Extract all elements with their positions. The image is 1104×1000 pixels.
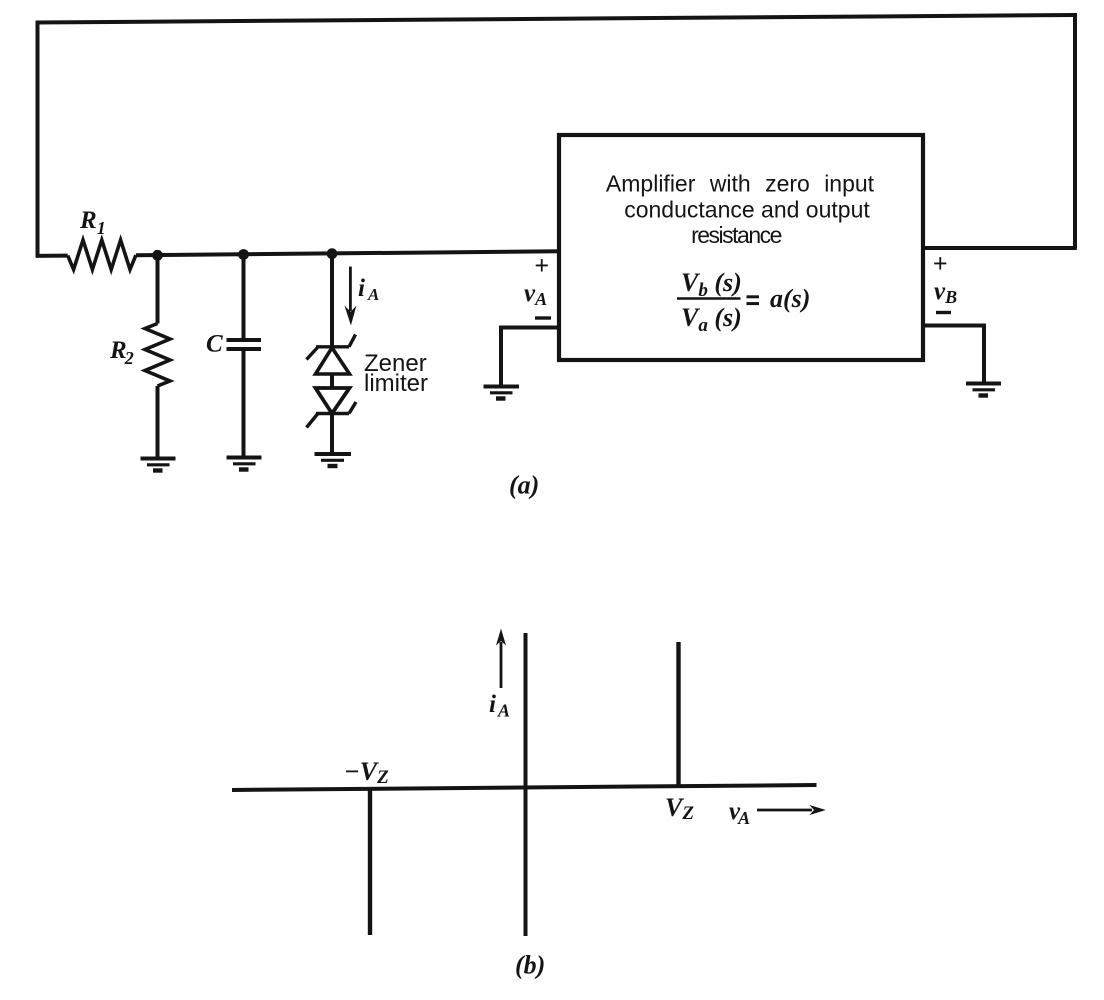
graph (b): vertical axis line — [524, 633, 528, 936]
wire: vA minus terminal to ground — [501, 328, 560, 386]
wire: R1 to amplifier input (node A) — [136, 251, 560, 255]
zener diode D1 (upper): cathode bar with bent ends — [307, 335, 356, 360]
amplifier U1 box — [559, 135, 923, 360]
ground (below zener limiter) — [315, 454, 352, 466]
graph (b): current spike at -VZ — [368, 789, 372, 935]
wire: left vertical of feedback loop — [36, 21, 40, 257]
ground (below C) — [227, 458, 262, 470]
graph (b): iA axis arrow — [500, 642, 503, 688]
wire: right vertical of feedback loop — [1073, 13, 1077, 248]
wire: amplifier output to feedback node B — [921, 246, 1077, 250]
svg-text:(b): (b) — [515, 951, 545, 980]
wire: top horizontal feedback — [36, 15, 1075, 23]
resistor R2 — [145, 324, 170, 387]
svg-text:+: + — [933, 249, 948, 278]
label: minus sign of vB — [936, 311, 951, 314]
svg-text:a(s): a(s) — [770, 284, 810, 313]
resistor R1 — [68, 240, 136, 270]
svg-text:Va (s): Va (s) — [681, 303, 742, 336]
node: junction dot at C — [238, 249, 249, 260]
svg-text:vB: vB — [934, 278, 957, 307]
svg-text:R1: R1 — [79, 207, 106, 238]
zener diode D1 triangle (anode pointing up) — [316, 348, 350, 374]
current arrow iA — [349, 267, 352, 311]
svg-text:iA: iA — [489, 691, 510, 721]
wire: zener to ground — [330, 414, 334, 454]
ground (below vA) — [484, 387, 520, 399]
ground (below R2) — [141, 459, 176, 471]
wire: node A down to capacitor C — [242, 255, 246, 341]
capacitor C top plate — [227, 338, 262, 342]
graph (b): vA axis arrow — [757, 809, 812, 812]
svg-text:conductance and output: conductance and output — [624, 197, 870, 223]
fraction bar — [677, 297, 741, 300]
capacitor C bottom plate — [227, 347, 262, 351]
svg-text:Amplifier with zero input: Amplifier with zero input — [606, 171, 875, 197]
svg-text:limiter: limiter — [364, 370, 428, 397]
wire: left stub into R1 — [36, 254, 68, 258]
svg-text:C: C — [206, 331, 223, 358]
label: minus sign of vA — [535, 316, 551, 319]
svg-text:vA: vA — [729, 798, 750, 828]
node: junction dot at R2 — [152, 250, 163, 261]
equation: = a(s) — [747, 297, 760, 304]
wire: between zener anodes — [330, 374, 334, 388]
zener diode D2 triangle (anode pointing down) — [316, 388, 350, 414]
wire: R2 to ground — [156, 386, 160, 457]
svg-text:(a): (a) — [509, 471, 539, 500]
svg-text:Vb (s): Vb (s) — [681, 268, 742, 301]
graph (b): horizontal axis vA — [232, 785, 817, 790]
svg-text:−VZ: −VZ — [344, 757, 389, 788]
svg-text:R2: R2 — [109, 337, 134, 368]
svg-text:resistance: resistance — [691, 222, 782, 248]
svg-text:+: + — [534, 251, 549, 280]
ground (below vB) — [966, 384, 1001, 396]
wire: C to ground — [242, 349, 246, 456]
svg-text:VZ: VZ — [665, 793, 694, 824]
svg-text:iA: iA — [358, 275, 379, 304]
svg-text:vA: vA — [524, 280, 547, 309]
zener diode D2: cathode bar with bent ends — [307, 402, 357, 428]
graph (b): current spike at +VZ — [676, 642, 680, 788]
wire: node A down to R2 — [156, 255, 160, 324]
wire: node A down to zener limiter — [330, 254, 334, 347]
node: junction dot at zener — [327, 248, 338, 259]
wire: vB minus terminal to ground — [921, 326, 984, 383]
